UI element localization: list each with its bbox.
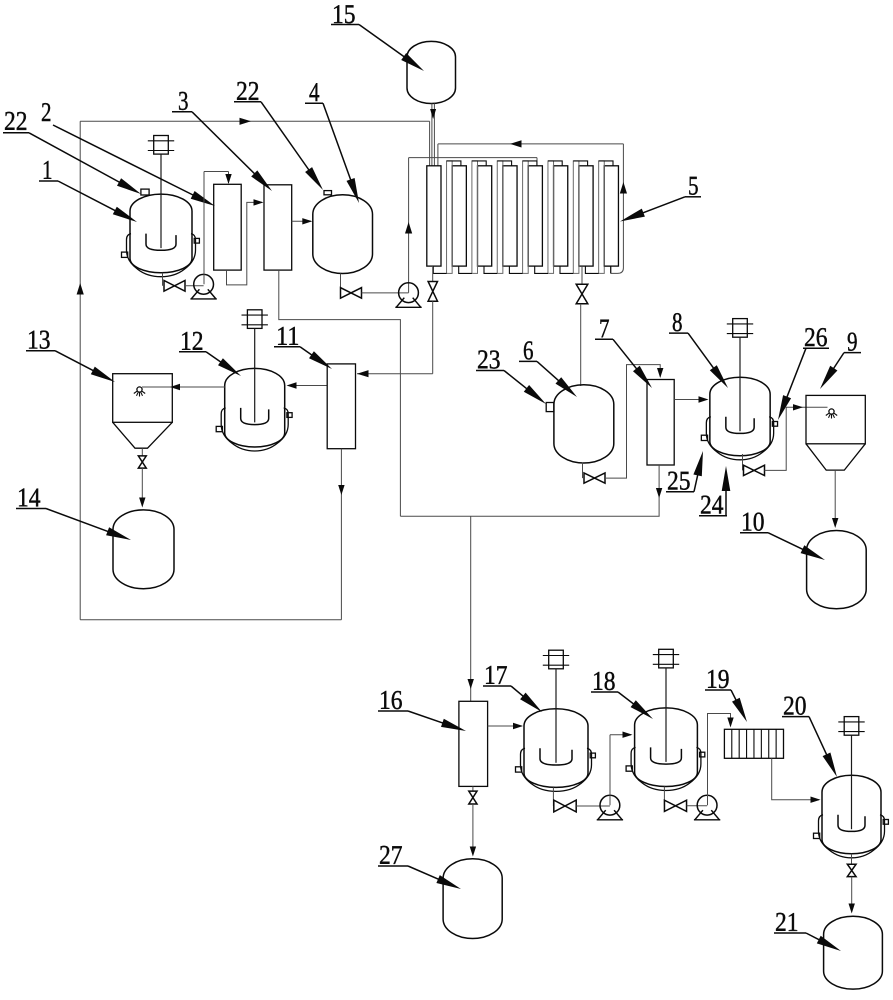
- arrow: into reactor 20: [811, 797, 821, 803]
- pump P17: [597, 795, 623, 820]
- nozzle 23 on vessel 6: [546, 403, 554, 412]
- pipe: reactor 8 to dryer 9: [765, 407, 828, 470]
- valve under reactor 20: [847, 864, 856, 876]
- label 24: [699, 466, 730, 520]
- label 5: [620, 171, 701, 222]
- reactor 18: [626, 649, 705, 790]
- arrow: into tank 27: [470, 847, 476, 857]
- pipe: dryer 13 to tank 14: [141, 468, 143, 504]
- valve at reactor 18 outlet: [664, 800, 686, 811]
- pipe: top recycle line: [80, 121, 429, 166]
- pipe: column 16 to tank 27: [472, 804, 474, 854]
- label 22 (vessel 4 nozzle): [234, 76, 323, 190]
- arrow: recycle up on left frame: [77, 283, 84, 295]
- tank 10: [807, 531, 867, 609]
- pump P4: [395, 283, 421, 307]
- spray nozzle in dryer 13: [134, 387, 145, 397]
- pipe: column 16 drain: [472, 786, 474, 791]
- pipe: left recycle frame: [80, 121, 341, 620]
- label 25: [666, 451, 703, 496]
- pump P1: [190, 274, 216, 299]
- pipe: reactor 18 drain: [663, 787, 665, 806]
- label 21: [774, 907, 841, 951]
- pipe: exchanger right riser: [611, 144, 624, 274]
- arrow: into tank 10: [832, 518, 838, 528]
- pump P18: [694, 795, 720, 820]
- pipe: vessel 6 drain: [582, 463, 584, 479]
- pipe: valve to pump 18: [687, 805, 708, 807]
- valve at reactor 17 outlet: [554, 800, 576, 812]
- label 23: [476, 344, 546, 404]
- pipe: valve to pump 4: [362, 292, 409, 294]
- reactor 8: [701, 319, 777, 460]
- pipe: vessel 6 to column 7: [605, 365, 660, 479]
- column 3: [264, 185, 292, 270]
- valve at reactor 8 outlet: [744, 465, 765, 475]
- pipe: column 16 to reactor 17: [488, 725, 522, 727]
- pipe: reactor 17 drain: [552, 787, 554, 806]
- arrow: column 11 drain down: [338, 485, 344, 495]
- arrow: into column 2 top: [225, 174, 231, 184]
- reactor 20: [814, 717, 889, 858]
- pipe: column 3 bottom to transfer line: [279, 270, 401, 516]
- vessel 4: [313, 195, 373, 274]
- nozzle 22 on vessel 4: [324, 191, 332, 195]
- arrow: top recycle right: [240, 118, 252, 125]
- pipe: tube 1 drain: [432, 266, 434, 281]
- reactor 12: [216, 310, 292, 451]
- arrow: into reactor 17: [513, 723, 523, 729]
- arrow: return line left: [510, 140, 522, 147]
- arrow: right riser up: [620, 182, 627, 194]
- pipe: dryer 13 drain: [141, 448, 143, 456]
- svg-text:5: 5: [688, 171, 699, 201]
- nozzle 22 on reactor 1: [141, 189, 149, 195]
- tank 27: [443, 859, 502, 939]
- label 8: [669, 307, 728, 388]
- label 27: [378, 840, 461, 889]
- vessel 6: [554, 385, 614, 463]
- pipe: column 11 bottom to recycle: [340, 449, 342, 620]
- label 11: [274, 321, 332, 369]
- label 9: [820, 327, 861, 389]
- pipe: column 3 to vessel 4: [292, 220, 311, 222]
- pipe: tube 7 drain: [581, 266, 583, 284]
- label 26: [778, 322, 829, 420]
- pipe: column 7 bottom drain: [658, 465, 660, 516]
- label 3: [172, 86, 272, 191]
- valve at vessel 4 outlet: [341, 288, 362, 299]
- arrow: into reactor 8: [699, 396, 709, 402]
- arrow: into column 3: [254, 199, 264, 205]
- arrow: into exchanger 19: [727, 718, 733, 728]
- valve at reactor 1 outlet: [164, 280, 185, 291]
- pipe: reactor 12 to dryer 13: [142, 386, 225, 388]
- pipe: exchanger return line: [438, 144, 624, 166]
- pipe: pump 1 to column 2: [204, 172, 229, 285]
- heat exchanger 19: [724, 729, 783, 758]
- svg-text:2: 2: [41, 97, 52, 127]
- pipe: branch to column 16: [470, 516, 472, 701]
- label 14: [16, 482, 131, 540]
- pipe: valve to pump 17: [576, 805, 610, 807]
- label 16: [378, 685, 466, 731]
- valve under tube 1: [428, 282, 437, 302]
- label 19: [705, 664, 747, 722]
- valve under column 16: [469, 791, 477, 804]
- pipe: column 11 to reactor 12: [288, 385, 327, 387]
- arrow: into reactor 18: [623, 732, 633, 738]
- label 10: [740, 507, 825, 560]
- arrow: feed riser up: [405, 222, 412, 234]
- arrow: into dryer 13: [170, 384, 180, 390]
- pipe: transfer line: [400, 515, 659, 517]
- reactor 1: [122, 136, 200, 277]
- arrow: column 7 drain down: [656, 488, 662, 498]
- label 2: [41, 97, 215, 206]
- pipe: dryer 9 to tank 10: [834, 470, 836, 525]
- valve at vessel 6 outlet: [584, 473, 605, 483]
- label 17: [483, 660, 542, 712]
- arrow: into tank 14: [139, 498, 145, 508]
- label 22 (reactor 1 nozzle): [3, 106, 141, 194]
- column 7: [647, 380, 674, 466]
- column 2: [214, 184, 242, 270]
- pipe: pump 17 to reactor 18: [610, 735, 631, 806]
- pipe: column 7 to reactor 8: [674, 399, 707, 401]
- column 11: [327, 364, 355, 449]
- dryer 9 body: [806, 395, 865, 470]
- label 1: [39, 155, 137, 222]
- pipe: reactor 8 drain: [742, 454, 744, 470]
- label 4: [305, 77, 359, 203]
- arrow: into tank 21: [849, 904, 855, 914]
- pipe: vessel 4 drain: [340, 274, 342, 293]
- pipe: reactor 20 drain: [851, 854, 853, 864]
- arrow: into column 7 top: [657, 368, 663, 378]
- pipe: tank 15 outlet double line: [432, 104, 435, 166]
- arrow: into column 11: [357, 370, 369, 377]
- pipe: drain to column 11: [357, 301, 433, 374]
- arrow: into column 16 top: [468, 679, 474, 689]
- label 13: [26, 325, 115, 382]
- pipe: pump feed riser to exchanger: [409, 158, 537, 293]
- valve under dryer 13: [138, 456, 146, 468]
- arrow: into vessel 4: [302, 218, 312, 224]
- label 6: [519, 335, 577, 397]
- reactor 17: [516, 650, 596, 791]
- valve under tube 7: [576, 284, 588, 304]
- pipe: reactor 1 drain: [162, 273, 164, 286]
- label 20: [782, 691, 837, 778]
- arrow: tank 15 outlet down: [430, 109, 436, 119]
- pipe: to vessel 6 top: [580, 304, 582, 386]
- tank 15: [407, 41, 456, 103]
- label 15: [331, 0, 424, 71]
- label 18: [591, 666, 653, 719]
- spray nozzle in dryer 9: [826, 409, 837, 419]
- pipe: reactor 20 to tank 21: [851, 877, 853, 911]
- label 12: [179, 326, 241, 376]
- svg-text:22: 22: [4, 106, 28, 136]
- label 7: [595, 313, 652, 388]
- tank 21: [824, 916, 883, 989]
- arrow: into reactor 12: [287, 382, 297, 388]
- pipe: column 2 to column 3: [227, 202, 263, 285]
- heat exchanger 5 tube bank: [427, 161, 619, 274]
- tank 14: [113, 510, 174, 589]
- column 16: [459, 701, 488, 786]
- pipe: exchanger 19 to reactor 20: [772, 758, 819, 799]
- arrow: into dryer 9: [793, 404, 803, 410]
- pipe: valve to pump 1: [185, 285, 204, 287]
- dryer 13 body: [113, 374, 173, 449]
- pipe: pump 18 to exchanger 19: [708, 714, 731, 806]
